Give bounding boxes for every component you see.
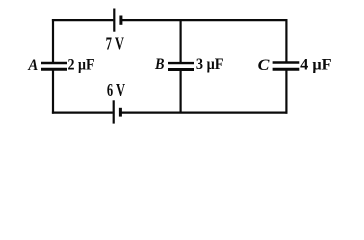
battery V2 (bottom)	[114, 100, 121, 123]
wire: left edge, upper segment	[52, 19, 54, 64]
wire: middle branch, lower segment	[180, 69, 182, 113]
wire: left edge, lower segment	[52, 69, 54, 114]
wire: bottom edge, right segment	[121, 111, 287, 113]
capacitor A	[41, 63, 67, 69]
wire: middle branch, upper segment	[180, 19, 182, 64]
wire: bottom edge, left segment	[52, 111, 113, 113]
svg-text:7 V: 7 V	[106, 34, 124, 54]
battery V1 (top)	[114, 9, 121, 32]
svg-text:C: C	[258, 55, 271, 74]
wire: right edge, upper segment	[285, 19, 287, 63]
wire: top edge, right segment	[122, 19, 288, 21]
svg-text:4 μF: 4 μF	[300, 56, 332, 73]
svg-text:B: B	[154, 54, 164, 73]
wire: top edge, left segment	[52, 19, 114, 21]
wire: right edge, lower segment	[285, 69, 287, 114]
svg-text:A: A	[27, 55, 38, 74]
svg-text:2 μF: 2 μF	[68, 56, 95, 73]
capacitor B	[168, 63, 194, 69]
svg-text:6 V: 6 V	[107, 80, 125, 100]
capacitor C	[273, 63, 300, 70]
svg-text:3 μF: 3 μF	[196, 56, 224, 73]
